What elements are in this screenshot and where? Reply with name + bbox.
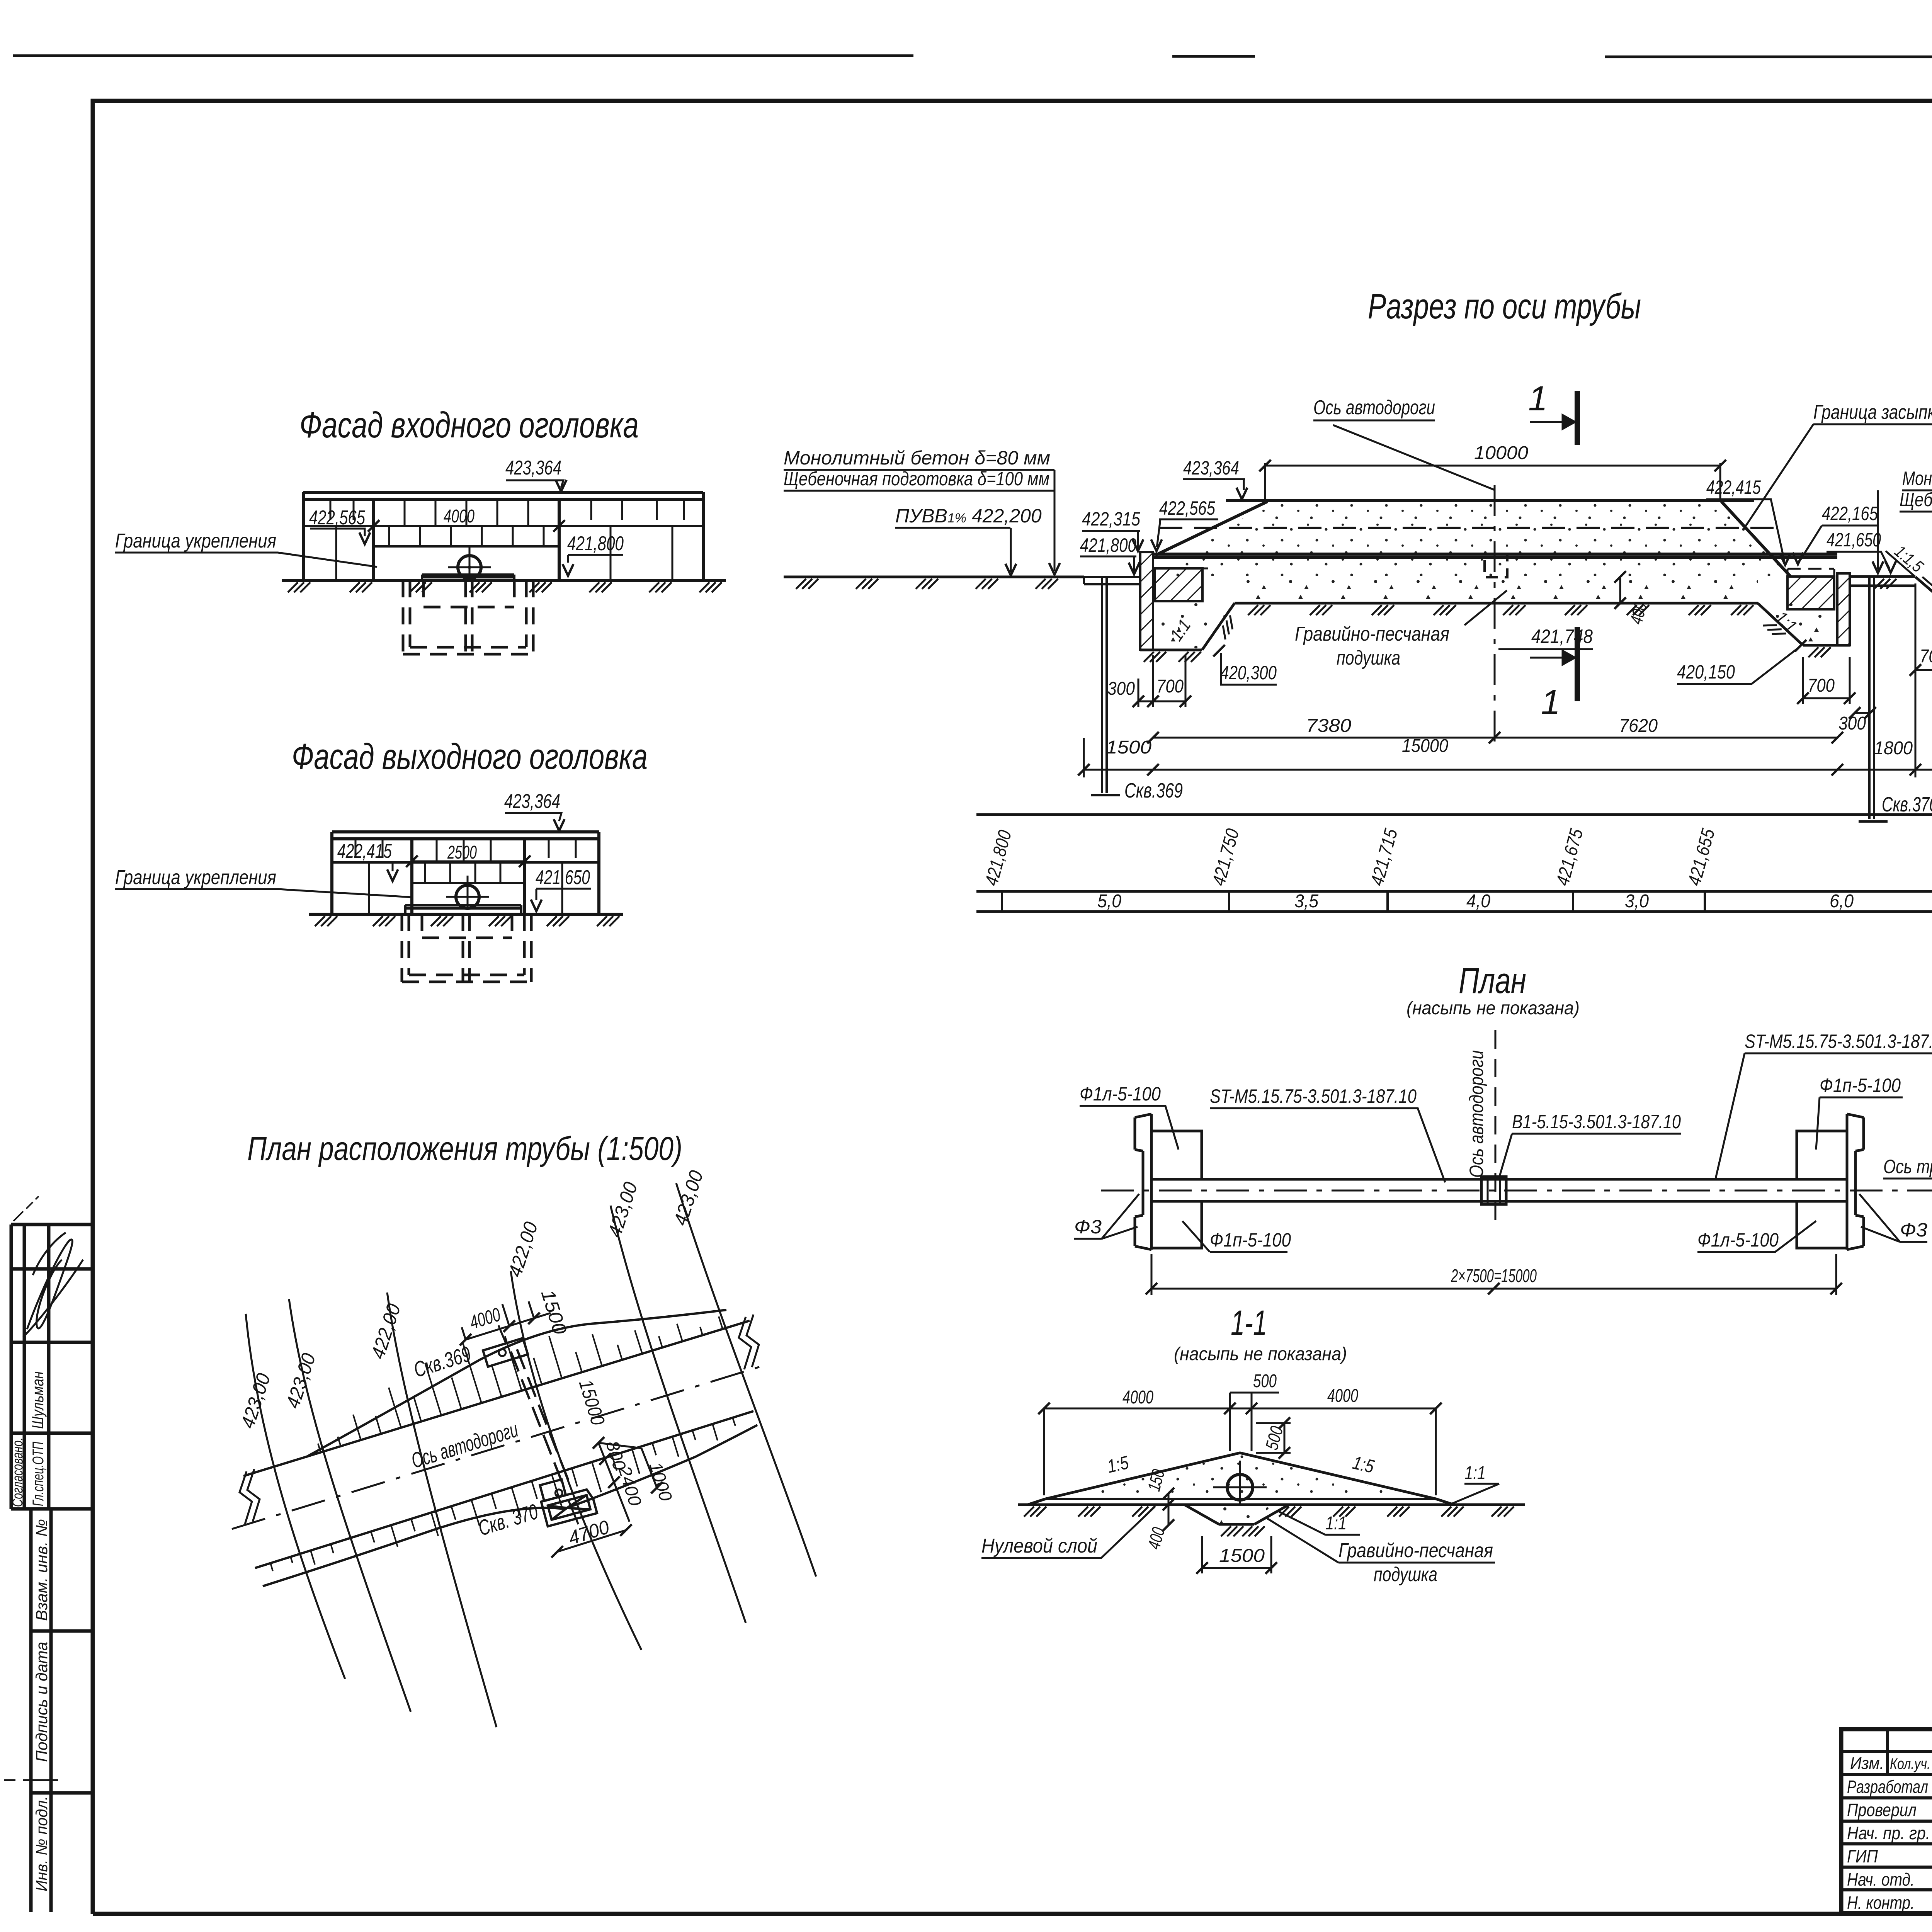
svg-text:4700: 4700 [566, 1516, 612, 1549]
svg-text:Подпись и дата: Подпись и дата [32, 1642, 51, 1762]
left portal wall [1135, 1114, 1151, 1250]
ditch slope line left 1:1,5 [1886, 551, 1915, 577]
svg-text:300: 300 [1838, 713, 1866, 734]
lower slope hatching [270, 1418, 735, 1571]
svg-text:10000: 10000 [1474, 443, 1528, 463]
right pit hatch [1763, 618, 1831, 657]
embankment top [1226, 499, 1754, 502]
outer box [1841, 1729, 1932, 1913]
svg-text:421,650: 421,650 [536, 866, 590, 889]
svg-text:Ф1п-5-100: Ф1п-5-100 [1820, 1075, 1901, 1096]
ground hatch [1024, 1507, 1514, 1517]
svg-text:422,00: 422,00 [504, 1219, 542, 1279]
buried foundation dashed outer box [403, 580, 533, 654]
left toe dashed outline [1153, 568, 1209, 601]
embankment right slope [1721, 502, 1791, 577]
ground hatch [315, 916, 619, 926]
svg-text:423,364: 423,364 [504, 790, 560, 813]
svg-text:421,675: 421,675 [1552, 827, 1587, 888]
masonry vertical joints row2 [336, 526, 672, 580]
svg-text:423,00: 423,00 [236, 1371, 274, 1431]
apron slab lines [422, 575, 514, 580]
svg-text:6,0: 6,0 [1830, 891, 1854, 912]
svg-text:2×7500=15000: 2×7500=15000 [1451, 1266, 1537, 1286]
svg-text:422,315: 422,315 [1082, 508, 1140, 530]
svg-text:4,0: 4,0 [1466, 891, 1490, 912]
svg-text:1-1: 1-1 [1231, 1303, 1267, 1343]
svg-text:Нач. отд.: Нач. отд. [1847, 1869, 1915, 1889]
left pit bottom [1140, 649, 1202, 651]
pipe axis dash-dot [1101, 1190, 1932, 1192]
ground hatch left [796, 579, 1058, 589]
svg-text:Граница укрепления: Граница укрепления [115, 530, 276, 552]
svg-text:700: 700 [1156, 676, 1184, 697]
horizontals left table [1841, 1752, 1932, 1890]
section mark 1 bottom [1575, 627, 1580, 701]
headwall edges [412, 839, 525, 914]
fill boundary dashed [1159, 527, 1777, 529]
svg-text:Ось автодороги: Ось автодороги [1313, 396, 1435, 419]
revetment band outline [332, 832, 599, 914]
dim 150 vertical [1168, 1493, 1170, 1505]
svg-text:422,415: 422,415 [337, 840, 392, 862]
svg-text:подушка: подушка [1337, 647, 1400, 669]
svg-text:Скв. 370: Скв. 370 [475, 1499, 541, 1541]
pit outline [1184, 1505, 1289, 1524]
revetment band outline [303, 492, 703, 580]
road lower edge [255, 1411, 753, 1568]
masonry joint rows [332, 862, 599, 883]
dim 1500 [1202, 1536, 1271, 1573]
svg-text:7380: 7380 [1306, 716, 1351, 736]
svg-text:Граница засыпки трубы: Граница засыпки трубы [1813, 401, 1932, 423]
dim 400 vertical [1168, 1505, 1170, 1525]
pipe circle [1227, 1475, 1253, 1500]
svg-text:420,300: 420,300 [1220, 662, 1277, 684]
right block lower F1l [1797, 1201, 1847, 1248]
svg-text:Проверил: Проверил [1847, 1800, 1917, 1820]
cushion bottom [1235, 602, 1758, 605]
dim 2x7500=15000 [1151, 1254, 1836, 1295]
svg-text:1:1,5: 1:1,5 [1891, 542, 1927, 576]
svg-text:ST-M5.15.75-3.501.3-187.10: ST-M5.15.75-3.501.3-187.10 [1210, 1085, 1417, 1107]
pipe top double line [1153, 554, 1837, 558]
pipe body lines [1151, 1179, 1847, 1201]
svg-text:421,715: 421,715 [1367, 827, 1401, 888]
masonry vertical joints [355, 839, 576, 914]
svg-text:Н. контр.: Н. контр. [1847, 1893, 1915, 1913]
svg-text:Щебеночная подготовка δ=100 мм: Щебеночная подготовка δ=100 мм [784, 468, 1049, 490]
svg-text:Ф1л-5-100: Ф1л-5-100 [1080, 1083, 1161, 1105]
pipe opening circle [456, 885, 479, 908]
gravel fill near left pit slope [1159, 603, 1235, 648]
dim 700 right [1803, 657, 1850, 704]
svg-text:(насыпь не показана): (насыпь не показана) [1406, 998, 1580, 1019]
road upper edge [243, 1321, 750, 1476]
ground hatch right [1874, 579, 1932, 589]
svg-text:Скв.369: Скв.369 [411, 1342, 474, 1382]
embankment left slope [1155, 502, 1267, 555]
svg-text:Разработал: Разработал [1847, 1777, 1928, 1797]
ground hatch [288, 582, 722, 592]
svg-text:423,00: 423,00 [669, 1168, 707, 1228]
left block upper F1l [1151, 1131, 1202, 1179]
left headwall toe block hatched [1155, 568, 1202, 601]
svg-text:Взам. инв. №: Взам. инв. № [32, 1519, 51, 1621]
svg-text:423,364: 423,364 [505, 457, 561, 479]
svg-text:7620: 7620 [1619, 716, 1658, 736]
pipe joint at road axis [1485, 554, 1507, 577]
svg-text:Гравийно-песчаная: Гравийно-песчаная [1295, 623, 1449, 645]
svg-text:3,0: 3,0 [1625, 891, 1649, 912]
svg-text:Монолитный бетон δ=120 мм: Монолитный бетон δ=120 мм [1902, 468, 1932, 489]
svg-text:ГИП: ГИП [1847, 1846, 1878, 1866]
svg-text:Согласовано.: Согласовано. [10, 1437, 26, 1507]
svg-text:422,565: 422,565 [309, 507, 366, 529]
left stamp: lower cells [31, 1509, 93, 1912]
svg-text:422,415: 422,415 [1706, 476, 1761, 498]
svg-text:4000: 4000 [444, 506, 474, 527]
ground line [309, 913, 623, 916]
svg-text:15000: 15000 [1402, 736, 1448, 756]
contour line C [387, 1293, 497, 1727]
svg-text:421,750: 421,750 [1208, 827, 1243, 888]
svg-text:Ф1л-5-100: Ф1л-5-100 [1697, 1229, 1779, 1251]
header-only verticals [1888, 1729, 1932, 1775]
svg-text:ST-M5.15.75-3.501.3-187.10: ST-M5.15.75-3.501.3-187.10 [1745, 1031, 1932, 1052]
svg-text:План: План [1459, 960, 1526, 1001]
road axis line [1494, 485, 1496, 744]
road break marks [240, 1469, 260, 1524]
svg-text:700: 700 [1920, 646, 1932, 667]
svg-text:Фасад входного оголовка: Фасад входного оголовка [299, 405, 639, 445]
svg-text:423,00: 423,00 [282, 1350, 320, 1411]
svg-text:1:5: 1:5 [1351, 1452, 1376, 1477]
svg-text:422,165: 422,165 [1822, 503, 1878, 524]
svg-text:Ось автодороги: Ось автодороги [1466, 1050, 1487, 1178]
gravel cushion fill [1235, 580, 1758, 602]
svg-text:Шульман: Шульман [29, 1371, 47, 1429]
right toe dashed outline [1787, 569, 1834, 577]
svg-text:423,00: 423,00 [604, 1179, 641, 1240]
svg-text:1500: 1500 [1106, 737, 1151, 758]
svg-text:Монолитный бетон δ=80 мм: Монолитный бетон δ=80 мм [784, 447, 1050, 469]
svg-text:Ф3: Ф3 [1074, 1216, 1102, 1238]
buried foundation dashed outer box [402, 914, 531, 982]
cushion bottom hatch [1248, 605, 1753, 615]
contour line B [289, 1299, 411, 1712]
upper slope hatching [318, 1316, 723, 1452]
svg-text:1:1: 1:1 [1464, 1463, 1486, 1483]
apron slab lines [405, 905, 521, 914]
svg-text:Кол.уч.: Кол.уч. [1890, 1755, 1930, 1772]
stamp signature squiggle [23, 1233, 83, 1337]
svg-text:B1-5.15-3.501.3-187.10: B1-5.15-3.501.3-187.10 [1512, 1111, 1681, 1133]
dim 10000 [1265, 463, 1720, 500]
svg-text:Нулевой слой: Нулевой слой [981, 1535, 1097, 1557]
contour line D [511, 1271, 641, 1650]
svg-text:Ось автодороги: Ось автодороги [408, 1417, 521, 1473]
svg-text:1: 1 [1528, 379, 1548, 418]
svg-text:Скв.369: Скв.369 [1124, 779, 1183, 802]
borehole skv370 line [1859, 577, 1888, 821]
svg-text:Ось трубы ПК 2+35: Ось трубы ПК 2+35 [1883, 1156, 1932, 1177]
top trim line [13, 56, 1932, 57]
svg-text:1500: 1500 [537, 1287, 571, 1337]
pit hatch [1221, 1526, 1265, 1536]
right block upper F1p [1797, 1131, 1847, 1179]
dim 4000/1500 along road [462, 1301, 551, 1340]
svg-text:Ф1п-5-100: Ф1п-5-100 [1210, 1229, 1291, 1251]
svg-text:421,650: 421,650 [1827, 529, 1881, 551]
svg-text:1:1: 1:1 [1325, 1513, 1347, 1534]
svg-text:Изм.: Изм. [1850, 1754, 1884, 1773]
svg-text:423,364: 423,364 [1183, 457, 1239, 479]
svg-text:15000: 15000 [575, 1377, 609, 1428]
svg-text:3,5: 3,5 [1294, 891, 1318, 912]
svg-text:422,565: 422,565 [1159, 497, 1215, 519]
svg-text:5,0: 5,0 [1097, 891, 1121, 912]
svg-text:подушка: подушка [1374, 1563, 1437, 1586]
road axis dashed vertical [1495, 1030, 1497, 1229]
svg-text:421,800: 421,800 [1080, 534, 1136, 556]
buried center dashed lines [466, 580, 472, 653]
svg-text:4000: 4000 [1122, 1387, 1153, 1408]
svg-text:421,800: 421,800 [567, 532, 624, 555]
svg-text:1: 1 [1541, 683, 1560, 722]
culvert axis extension [498, 1325, 582, 1532]
svg-text:500: 500 [1253, 1371, 1277, 1391]
pit fill speckles [1202, 1505, 1271, 1524]
road centerline [232, 1364, 769, 1529]
masonry joint rows [303, 526, 703, 546]
svg-text:4000: 4000 [1327, 1386, 1358, 1406]
profile band ticks [1002, 891, 1932, 912]
buried center dashed lines [463, 914, 469, 981]
svg-text:421,800: 421,800 [981, 828, 1015, 888]
svg-text:Скв.370: Скв.370 [1882, 793, 1932, 816]
dim 7380 / 7620 [1153, 737, 1837, 739]
svg-text:Нач. пр. гр.: Нач. пр. гр. [1847, 1823, 1930, 1843]
svg-text:План расположения трубы (1:500: План расположения трубы (1:500) [247, 1130, 682, 1167]
buried foundation dashed inner box [423, 580, 514, 607]
section mark 1 top [1575, 391, 1580, 445]
upper embankment toe [305, 1310, 726, 1458]
ditch lining double line [1922, 574, 1932, 614]
svg-text:421,748: 421,748 [1531, 626, 1593, 647]
svg-text:Разрез по оси трубы: Разрез по оси трубы [1368, 287, 1641, 326]
dim 300/700 left [1138, 655, 1185, 707]
dim 1500 / 15000 / 1800 / 2400 [1084, 672, 1932, 777]
left block lower F1p [1151, 1201, 1202, 1248]
pipe opening circle [458, 556, 481, 579]
svg-text:2400: 2400 [614, 1463, 646, 1509]
dim 400 at axis [1619, 577, 1621, 603]
ground line [282, 579, 726, 582]
center joint plates [1481, 1177, 1506, 1204]
svg-text:2500: 2500 [447, 842, 477, 863]
dim 300 right [1855, 712, 1870, 714]
contour line F [676, 1183, 816, 1577]
borehole skv369 line [1091, 577, 1120, 795]
svg-text:(насыпь не показана): (насыпь не показана) [1174, 1344, 1347, 1364]
profile band lines [976, 815, 1932, 912]
stray dashes above stamp [14, 1196, 39, 1221]
left headwall stem hatched [1140, 552, 1153, 650]
right pit bottom [1803, 644, 1850, 647]
svg-text:1800: 1800 [1874, 738, 1913, 759]
svg-text:1:5: 1:5 [1105, 1452, 1131, 1477]
ground line [1018, 1503, 1525, 1506]
svg-text:500: 500 [1261, 1424, 1287, 1452]
contour line E [611, 1206, 746, 1623]
svg-text:420,150: 420,150 [1677, 661, 1735, 683]
lower embankment toe [263, 1425, 757, 1586]
svg-text:1500: 1500 [1219, 1546, 1265, 1566]
right toe block hatched [1787, 577, 1834, 609]
dim 500 vertical [1256, 1423, 1291, 1453]
ditch dims 700 500 1200 [1915, 583, 1932, 675]
stray dash left of stamp [4, 1779, 58, 1781]
ground line right of wall [1850, 577, 1915, 586]
svg-text:421,655: 421,655 [1684, 827, 1719, 888]
outlet headwall symbol [537, 1473, 597, 1526]
svg-text:Фасад выходного оголовка: Фасад выходного оголовка [292, 736, 648, 777]
culvert axis dashed [511, 1352, 563, 1486]
embankment fill speckles [1063, 1454, 1414, 1497]
right portal wall [1847, 1114, 1864, 1250]
right pit slope 1:1 [1758, 603, 1803, 645]
svg-text:Гл.спец.ОТП: Гл.спец.ОТП [30, 1441, 47, 1506]
svg-text:Инв. № подл.: Инв. № подл. [32, 1796, 51, 1891]
ground line left [784, 576, 1084, 578]
embankment outline [1028, 1453, 1454, 1505]
embankment sand fill [1155, 502, 1791, 576]
left pit hatch [1144, 615, 1238, 662]
svg-text:700: 700 [1808, 675, 1835, 696]
buried foundation dashed inner box [422, 914, 512, 938]
right headwall stem hatched [1837, 573, 1850, 645]
old surface strip left of wall [1084, 577, 1140, 584]
headwall edges [374, 499, 559, 580]
gravel fill near right pit slope [1758, 603, 1832, 643]
left stamp box: approvals [11, 1225, 93, 1509]
svg-text:300: 300 [1107, 679, 1135, 699]
masonry vertical joints row1 [330, 499, 684, 526]
svg-text:422,00: 422,00 [367, 1301, 405, 1361]
pit dashed top [1184, 1503, 1289, 1506]
svg-text:Щебеночная подготовка δ=100 мм: Щебеночная подготовка δ=100 мм [1900, 489, 1932, 510]
ditch left bank [1915, 577, 1932, 617]
borehole 369 box [483, 1338, 528, 1367]
dim 4700 [557, 1530, 626, 1552]
svg-text:Ф3: Ф3 [1900, 1219, 1927, 1241]
left pit slope 1:1 [1202, 603, 1235, 650]
dim lines at outlet [599, 1443, 657, 1522]
svg-text:ПУВВ1% 422,200: ПУВВ1% 422,200 [895, 505, 1042, 527]
svg-text:Граница укрепления: Граница укрепления [115, 866, 276, 889]
svg-text:Гравийно-песчаная: Гравийно-песчаная [1338, 1539, 1493, 1562]
dim 4000 4000 line [1044, 1393, 1436, 1495]
contour line A [246, 1314, 345, 1679]
berm top line [1046, 1498, 1436, 1500]
